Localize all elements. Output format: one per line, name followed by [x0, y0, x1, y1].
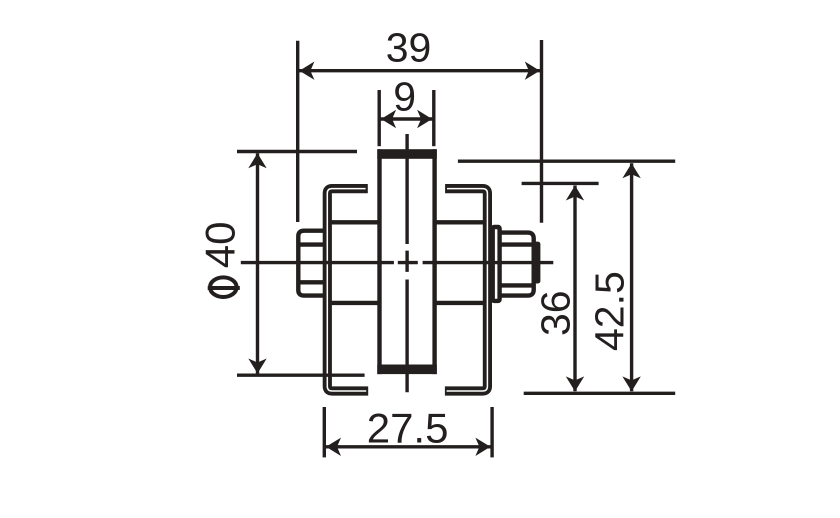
27.5 right arrowhead — [475, 438, 490, 456]
36 bottom arrowhead — [566, 376, 584, 391]
hex bolt head lower chamfer line — [300, 280, 326, 284]
left bracket (C-channel, sheet metal double line) — [327, 189, 368, 391]
dimension 36 (bracket height) — [522, 183, 599, 391]
9 right arrowhead — [417, 110, 432, 128]
27.5 left extension line — [323, 407, 326, 457]
svg-text:36: 36 — [533, 290, 579, 336]
roller top tread band — [377, 149, 437, 159]
bolt tip protruding past nut — [534, 242, 541, 284]
9 dimension line — [379, 117, 433, 120]
axle shaft left top edge — [328, 220, 380, 224]
dimension 27.5 (bracket outer width) — [324, 405, 492, 458]
dimension 42.5 (overall height) — [458, 161, 675, 393]
svg-text:9: 9 — [393, 73, 416, 119]
roller left edge — [377, 149, 381, 374]
9 left extension line — [378, 90, 381, 146]
svg-text:40: 40 — [197, 221, 244, 268]
phi40 bottom extension line — [237, 374, 365, 377]
39 left arrowhead — [299, 61, 314, 79]
36 dimension line — [573, 186, 576, 392]
39 right arrowhead — [525, 61, 540, 79]
hex nut upper chamfer line — [502, 242, 532, 246]
svg-text:42.5: 42.5 — [587, 271, 633, 351]
washer (right) — [493, 227, 500, 301]
36 top arrowhead — [566, 186, 584, 201]
42.5 top arrowhead — [622, 163, 640, 178]
dimension 39 (overall width) — [298, 25, 542, 223]
dimension 9 (roller width) — [379, 73, 434, 146]
39 left extension line — [296, 41, 299, 222]
svg-text:27.5: 27.5 — [367, 405, 449, 452]
27.5 dimension line — [324, 445, 492, 448]
shared bottom extension line (36 and 42.5) — [524, 392, 676, 395]
vertical centerline (dash-dot) — [405, 134, 408, 392]
horizontal centerline (dash-dot) — [241, 261, 554, 264]
42.5 top extension line — [458, 159, 675, 162]
39 right extension line — [540, 40, 543, 223]
hex nut outline (right) — [502, 233, 534, 296]
9 right extension line — [432, 90, 435, 146]
phi40 bottom arrowhead — [248, 359, 266, 374]
axle shaft right top edge — [435, 220, 485, 224]
36 top extension line — [522, 182, 599, 185]
phi40 dimension line — [256, 153, 259, 373]
phi40 top extension line — [237, 150, 357, 153]
roller right edge — [432, 149, 436, 374]
hex bolt head outline (left) — [298, 231, 325, 296]
phi40 top arrowhead — [248, 153, 266, 168]
roller bottom tread band — [377, 365, 437, 375]
right bracket (C-channel, sheet metal double line) — [445, 189, 488, 391]
hex bolt head upper chamfer line — [300, 242, 326, 246]
39 dimension line — [298, 69, 542, 72]
9 left arrowhead — [381, 110, 396, 128]
27.5 left arrowhead — [326, 438, 341, 456]
27.5 right extension line — [490, 407, 493, 457]
axle shaft right bottom edge — [435, 301, 485, 305]
42.5 dimension line — [630, 163, 633, 391]
hex nut lower chamfer line — [502, 283, 532, 287]
phi symbol of phi40 label — [210, 277, 237, 297]
axle shaft left bottom edge — [328, 301, 380, 305]
svg-text:39: 39 — [386, 25, 432, 71]
42.5 bottom arrowhead — [622, 376, 640, 391]
dimension phi40 (roller diameter) — [197, 152, 365, 376]
